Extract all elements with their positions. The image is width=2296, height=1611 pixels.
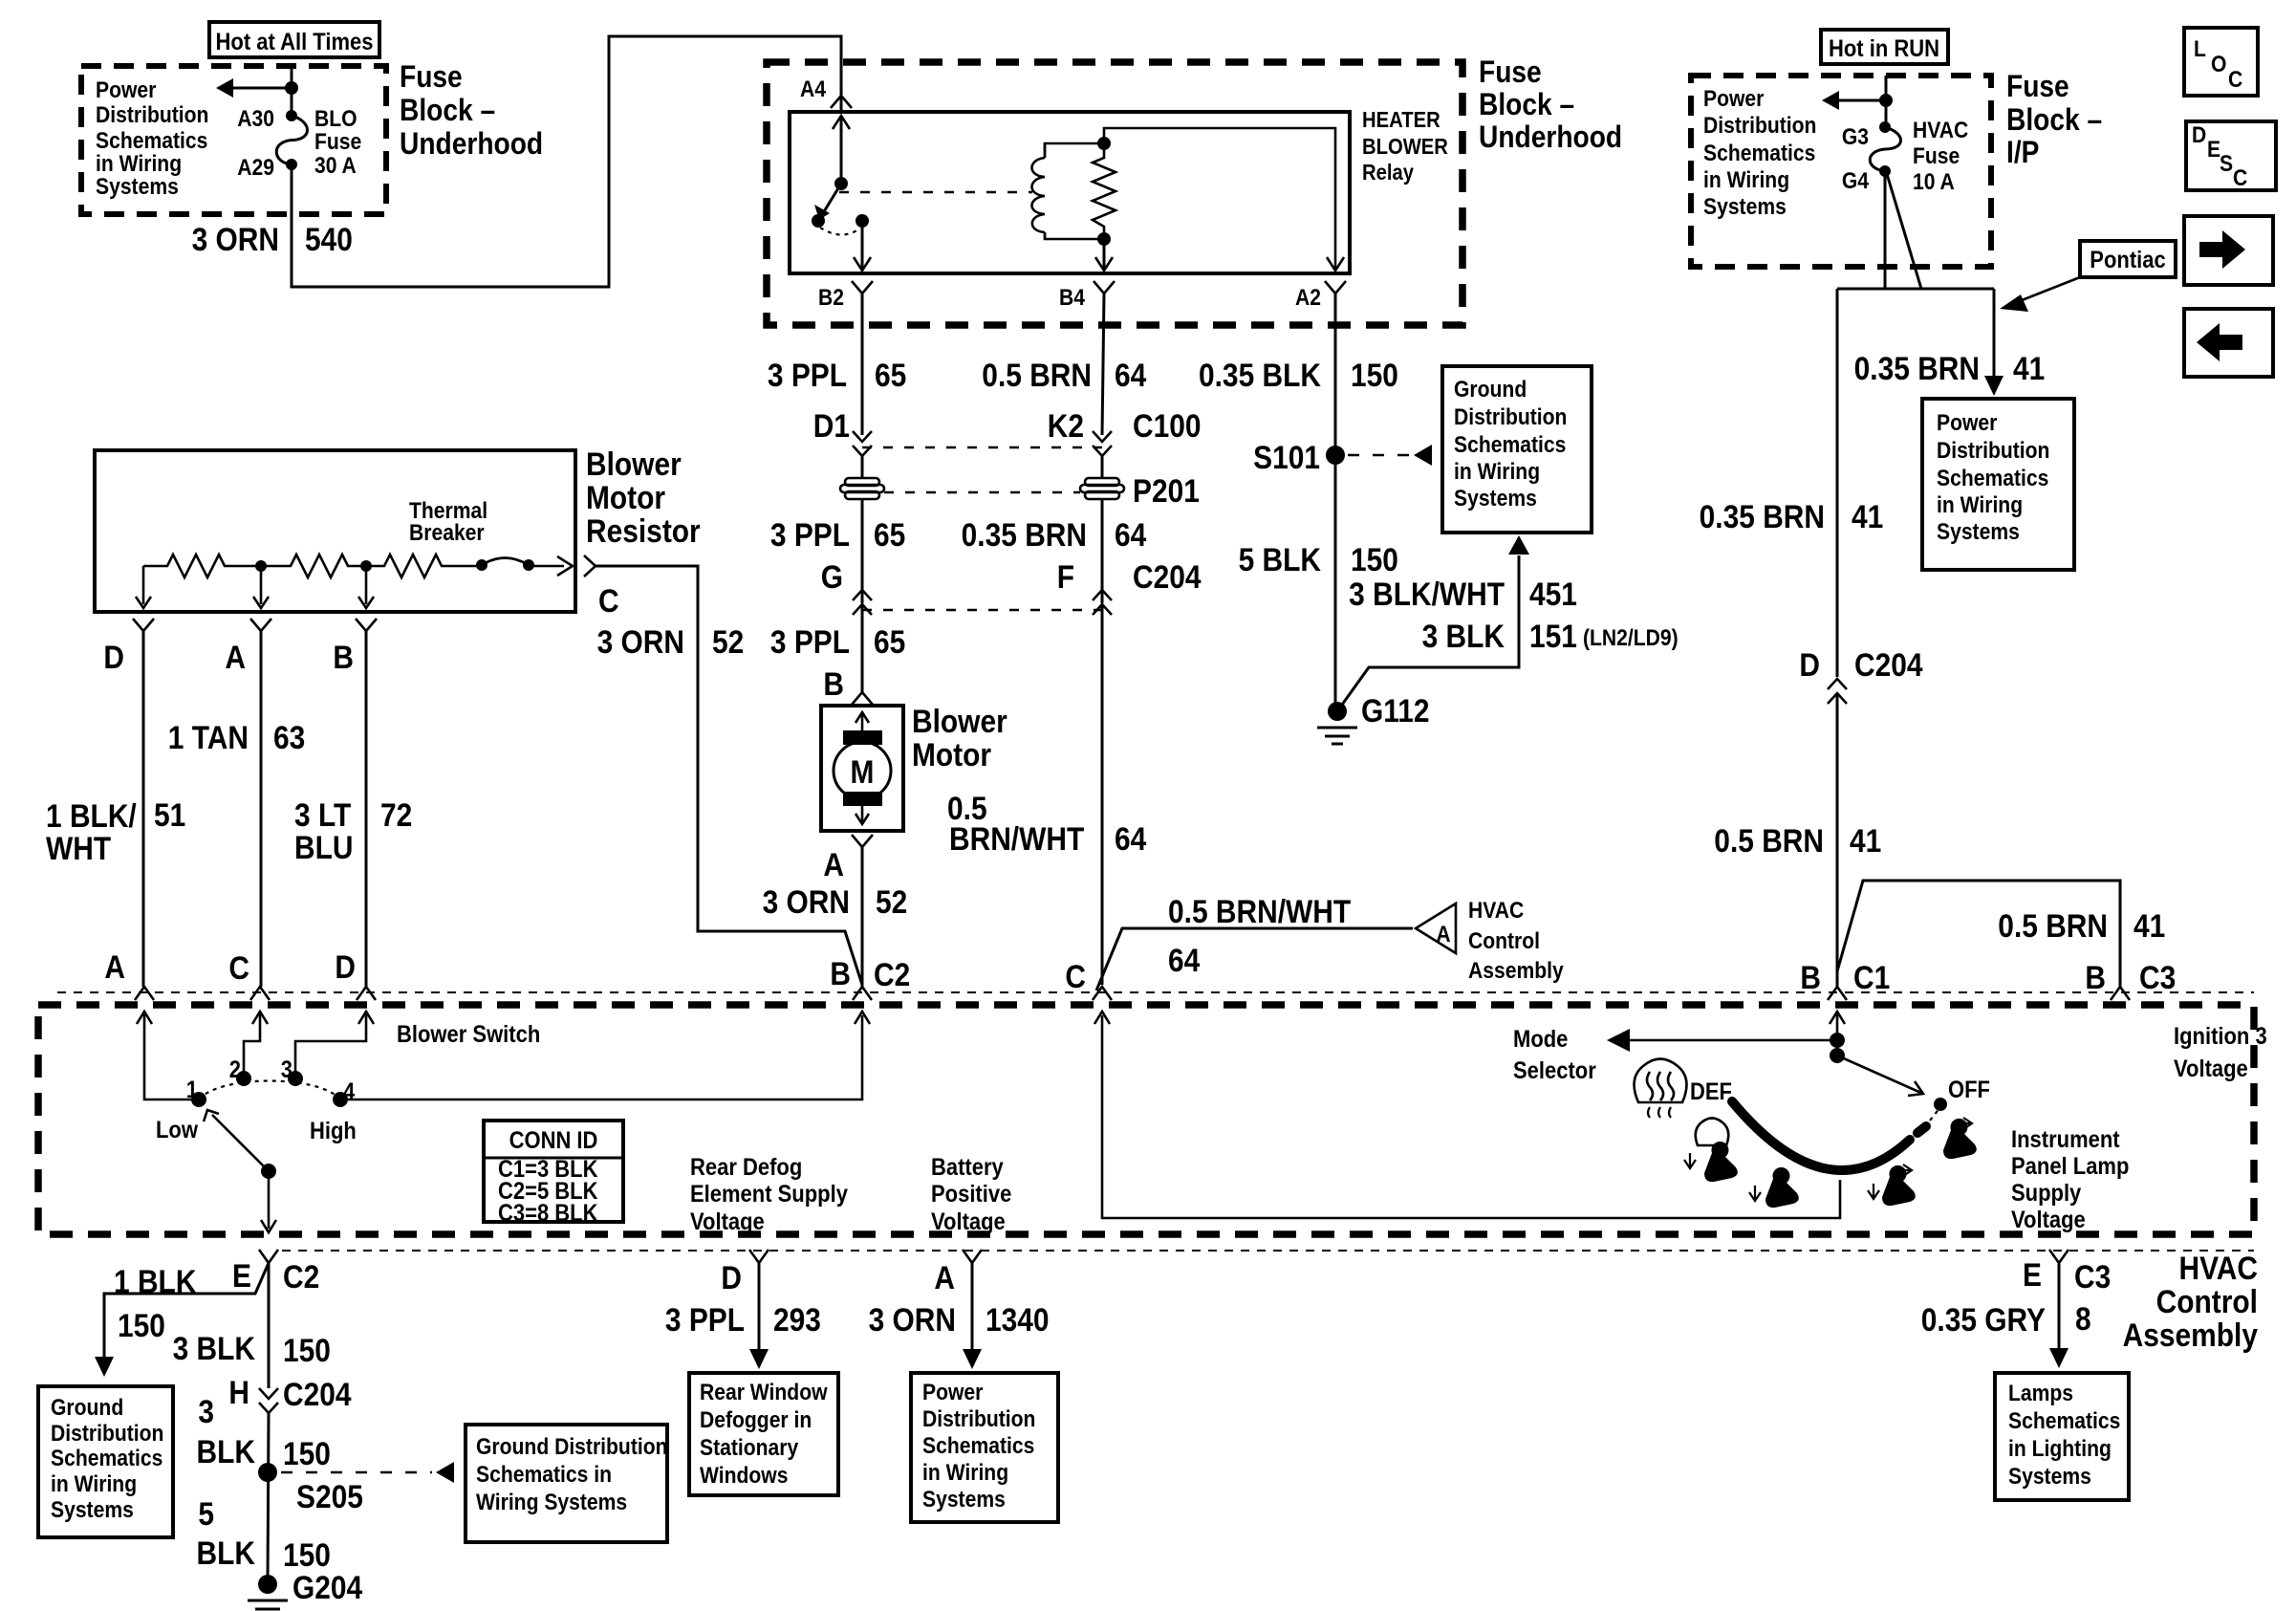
svg-text:Supply: Supply <box>2011 1180 2081 1207</box>
pin A chevron (motor) <box>852 835 873 847</box>
thermal breaker arc <box>482 558 529 566</box>
switch contacts dotted arc <box>199 1081 340 1100</box>
connector P201 on wire 2 <box>1080 478 1124 499</box>
svg-text:B2: B2 <box>818 285 844 311</box>
svg-text:B: B <box>333 639 354 675</box>
svg-text:64: 64 <box>1115 820 1146 857</box>
relay switch contact right <box>856 214 869 228</box>
svg-text:Selector: Selector <box>1513 1057 1596 1084</box>
pin C chevron (resistor) <box>584 555 596 577</box>
relay switch blade <box>823 184 841 213</box>
connector C204 chevrons wire1 <box>853 590 872 600</box>
wire 3 BLK 150 (E to C204) <box>268 1263 271 1388</box>
svg-text:in Wiring: in Wiring <box>1937 492 2023 518</box>
svg-text:B: B <box>2085 959 2106 995</box>
svg-text:Mode: Mode <box>1513 1026 1568 1053</box>
wire segment B4 C100-P201 <box>1101 456 1104 478</box>
switch pin D arrow <box>358 1012 374 1024</box>
node junction on IP fuse feed <box>1879 94 1893 107</box>
svg-text:WHT: WHT <box>46 830 112 866</box>
svg-text:B: B <box>1800 959 1821 995</box>
fuse HVAC 10A element <box>1870 127 1900 171</box>
pin C chevron (switch) <box>250 987 270 1000</box>
connector C204 chevrons (bottom) <box>259 1388 278 1399</box>
mode icon bi-level <box>1882 1165 1916 1206</box>
svg-text:BLK: BLK <box>197 1433 255 1469</box>
svg-text:Systems: Systems <box>922 1487 1006 1513</box>
svg-text:E: E <box>2207 137 2220 163</box>
wire segment B2 C100-P201 <box>861 456 864 478</box>
svg-text:A29: A29 <box>237 155 274 181</box>
svg-text:B: B <box>830 955 851 991</box>
fuse block underhood dashed box <box>81 66 386 214</box>
pin B C3 chevron <box>2111 987 2130 1000</box>
svg-text:C100: C100 <box>1133 407 1202 444</box>
pin A chevron (bottom) <box>963 1250 982 1263</box>
svg-text:65: 65 <box>874 516 905 553</box>
svg-text:3 ORN: 3 ORN <box>597 623 684 660</box>
svg-text:P201: P201 <box>1133 472 1200 509</box>
connector C204 dashed line <box>862 609 1102 611</box>
relay coil top rail <box>1045 143 1104 158</box>
svg-text:K2: K2 <box>1048 407 1084 444</box>
svg-text:D: D <box>335 948 356 985</box>
svg-text:D: D <box>721 1259 742 1295</box>
svg-text:in Wiring: in Wiring <box>922 1460 1008 1486</box>
svg-text:(LN2/LD9): (LN2/LD9) <box>1583 625 1679 651</box>
DESC box <box>2186 121 2276 190</box>
svg-text:in Wiring: in Wiring <box>1703 167 1789 193</box>
svg-text:Wiring Systems: Wiring Systems <box>476 1490 627 1515</box>
svg-text:Schematics: Schematics <box>922 1433 1034 1459</box>
svg-text:Systems: Systems <box>1937 519 2020 545</box>
svg-text:Motor: Motor <box>586 479 665 515</box>
svg-text:72: 72 <box>380 796 412 833</box>
svg-text:Ignition 3: Ignition 3 <box>2174 1023 2267 1050</box>
svg-text:BRN/WHT: BRN/WHT <box>949 820 1085 857</box>
svg-text:Resistor: Resistor <box>586 512 701 549</box>
relay resistor <box>1093 143 1116 239</box>
svg-text:A: A <box>1436 922 1450 947</box>
svg-text:M: M <box>851 753 875 790</box>
svg-text:C204: C204 <box>1133 558 1202 595</box>
svg-text:64: 64 <box>1115 516 1146 553</box>
svg-text:Blower: Blower <box>912 703 1007 739</box>
resistor junction A leg <box>260 566 263 604</box>
ground G204 <box>258 1575 277 1594</box>
svg-text:C3: C3 <box>2139 959 2176 995</box>
mode selector OFF contact <box>1934 1098 1947 1111</box>
svg-text:150: 150 <box>118 1307 165 1343</box>
svg-text:in Wiring: in Wiring <box>1454 459 1540 485</box>
relay switch pivot <box>834 177 848 190</box>
svg-text:Windows: Windows <box>700 1463 788 1489</box>
svg-text:C204: C204 <box>283 1376 352 1412</box>
wire from fuse G4 split <box>1884 171 1887 289</box>
relay B4 output wire <box>1103 239 1106 270</box>
svg-text:C: C <box>598 582 619 619</box>
svg-text:Distribution: Distribution <box>922 1406 1035 1432</box>
fuse block IP dashed box <box>1691 76 1991 267</box>
svg-text:High: High <box>310 1118 357 1144</box>
blower motor brush bottom <box>843 792 882 806</box>
node resistor junction B <box>360 560 372 572</box>
svg-text:BLK: BLK <box>197 1535 255 1571</box>
wire 1 BLK 150 branch <box>104 1263 269 1358</box>
svg-text:Block –: Block – <box>2006 103 2102 137</box>
svg-text:Schematics: Schematics <box>51 1446 162 1471</box>
pin B C1 chevron <box>1828 987 1847 1000</box>
mode icon defrost-floor <box>1696 1119 1729 1146</box>
svg-text:3 BLK: 3 BLK <box>173 1330 255 1366</box>
ground G112 <box>1328 702 1347 721</box>
svg-text:BLOWER: BLOWER <box>1362 134 1448 160</box>
wire 3 BLK/WHT 451 from ground box <box>1508 535 1529 555</box>
svg-text:3 LT: 3 LT <box>294 796 352 833</box>
fuse BLO 30A element <box>276 116 307 164</box>
switch rotor output wire <box>268 1171 271 1229</box>
svg-text:in Wiring: in Wiring <box>96 151 182 177</box>
pin B2 chevron <box>852 281 873 294</box>
svg-text:DEF: DEF <box>1690 1078 1732 1105</box>
svg-text:64: 64 <box>1115 357 1146 393</box>
fuse HVAC 10A terminal G4 <box>1879 165 1891 177</box>
relay internal wire to A2 <box>1104 128 1335 270</box>
svg-text:D: D <box>103 639 124 675</box>
switch contact 4 <box>333 1092 348 1107</box>
switch contact 3 <box>288 1071 303 1086</box>
svg-text:Hot at All Times: Hot at All Times <box>216 29 374 55</box>
svg-text:0.5 BRN: 0.5 BRN <box>1714 822 1824 859</box>
mode icon floor <box>1765 1167 1799 1208</box>
svg-text:A: A <box>934 1259 955 1295</box>
svg-text:Distribution: Distribution <box>51 1421 163 1447</box>
pin B C2 chevron (switch) <box>853 987 872 1000</box>
pin E C3 chevron <box>2049 1250 2069 1263</box>
svg-text:3: 3 <box>198 1393 214 1429</box>
power distribution box (right) <box>1922 399 2074 570</box>
svg-text:Schematics in: Schematics in <box>476 1462 612 1488</box>
svg-text:B: B <box>823 665 844 702</box>
svg-text:1 TAN: 1 TAN <box>168 719 249 755</box>
svg-text:5: 5 <box>198 1495 214 1532</box>
switch rotor pivot <box>261 1164 276 1179</box>
connector C204 chevrons wire2 <box>1093 590 1112 600</box>
svg-text:3 BLK/WHT: 3 BLK/WHT <box>1349 576 1505 612</box>
svg-text:Power: Power <box>1703 86 1765 112</box>
mode selector arc <box>1732 1101 1910 1170</box>
svg-text:52: 52 <box>876 883 907 920</box>
svg-text:Motor: Motor <box>912 736 991 773</box>
svg-text:F: F <box>1057 558 1074 595</box>
wire 1 BLK/WHT 51 <box>142 631 145 987</box>
back arrow box <box>2184 309 2273 377</box>
switch pin A arrow <box>137 1012 152 1024</box>
wire 3 ORN 52 from resistor C <box>596 566 862 985</box>
svg-text:41: 41 <box>2134 907 2165 944</box>
svg-text:in Wiring: in Wiring <box>51 1471 137 1497</box>
svg-text:S205: S205 <box>296 1478 363 1514</box>
svg-text:Fuse: Fuse <box>2006 70 2069 103</box>
svg-text:30 A: 30 A <box>314 153 357 179</box>
svg-text:C: C <box>2233 165 2247 191</box>
HVAC control assembly triangle connector A <box>1416 903 1456 953</box>
svg-text:E: E <box>232 1257 251 1294</box>
svg-text:Block –: Block – <box>1479 88 1574 121</box>
node Hot in RUN label box <box>1821 30 1948 64</box>
pin E C2 chevron <box>259 1250 278 1263</box>
blower motor brush top <box>843 730 882 745</box>
svg-text:Distribution: Distribution <box>1703 113 1816 139</box>
svg-text:C: C <box>228 949 249 986</box>
svg-text:3 PPL: 3 PPL <box>665 1301 745 1338</box>
switch pin C arrow <box>252 1012 268 1024</box>
svg-text:Control: Control <box>1468 928 1540 954</box>
svg-text:41: 41 <box>1850 822 1881 859</box>
svg-text:8: 8 <box>2075 1300 2091 1337</box>
relay actuation dashed line <box>839 191 1032 193</box>
svg-text:Blower: Blower <box>586 446 682 482</box>
thermal breaker output arrow <box>529 565 564 568</box>
wire 1 TAN 63 <box>260 631 263 987</box>
relay solid box <box>790 112 1350 273</box>
wire 3 PPL 65 (C204 to blower motor B) <box>861 604 864 692</box>
svg-text:150: 150 <box>283 1536 331 1573</box>
forward arrow box <box>2184 216 2273 285</box>
svg-text:41: 41 <box>1852 498 1883 534</box>
splice S101 <box>1326 446 1345 465</box>
svg-text:G: G <box>821 558 843 595</box>
relay switch common wire with up arrow <box>840 116 843 184</box>
relay switch contact left <box>812 214 825 228</box>
svg-text:3 PPL: 3 PPL <box>770 516 850 553</box>
node coil bottom junction <box>1097 232 1111 246</box>
svg-text:Systems: Systems <box>96 174 179 200</box>
svg-text:Schematics: Schematics <box>1937 466 2048 491</box>
svg-text:in Lighting: in Lighting <box>2008 1436 2112 1462</box>
svg-text:0.5 BRN: 0.5 BRN <box>1998 907 2108 944</box>
svg-text:D: D <box>1799 646 1820 683</box>
svg-text:Blower Switch: Blower Switch <box>397 1021 540 1048</box>
svg-text:G4: G4 <box>1842 168 1870 194</box>
svg-text:150: 150 <box>283 1332 331 1368</box>
svg-text:Distribution: Distribution <box>1937 438 2049 464</box>
wire 0.5 BRN 64 (B4 to C100) <box>1102 294 1104 435</box>
wire 3 ORN 540 from fuse A29 to relay A4 <box>292 36 841 287</box>
blower motor resistor box <box>95 450 575 612</box>
fuse BLO 30A terminal A30 <box>286 110 297 121</box>
svg-text:Systems: Systems <box>51 1497 134 1523</box>
svg-text:Rear Window: Rear Window <box>700 1380 828 1405</box>
svg-text:BLO: BLO <box>314 106 357 132</box>
svg-text:10 A: 10 A <box>1913 169 1955 195</box>
svg-text:HVAC: HVAC <box>2178 1250 2258 1286</box>
svg-text:150: 150 <box>283 1435 331 1471</box>
DEF icon <box>1635 1059 1687 1103</box>
wire 0.35 GRY 8 <box>2058 1263 2061 1349</box>
svg-text:0.35 GRY: 0.35 GRY <box>1921 1301 2046 1338</box>
resistor chain left leg <box>142 566 145 604</box>
svg-text:Schematics: Schematics <box>96 128 207 154</box>
pin A chevron (resistor) <box>250 619 271 631</box>
Pontiac reference arrow <box>2012 277 2080 304</box>
svg-text:Power: Power <box>1937 410 1998 436</box>
node coil top junction <box>1097 137 1111 150</box>
pin C chevron (mode) <box>1093 987 1112 1000</box>
svg-text:Pontiac: Pontiac <box>2090 247 2165 273</box>
svg-text:1340: 1340 <box>986 1301 1050 1338</box>
resistor R2 <box>261 555 366 577</box>
pin B chevron (motor) <box>852 692 873 705</box>
blower motor M circle <box>834 742 891 799</box>
svg-text:Distribution: Distribution <box>96 102 208 128</box>
connector C100 dashed line <box>862 446 1102 448</box>
ground distribution box (1 BLK) <box>38 1386 173 1537</box>
pin D chevron (resistor) <box>133 619 154 631</box>
splice S205 <box>258 1463 277 1482</box>
connector C100 chevrons wire1 <box>853 431 872 442</box>
svg-text:Voltage: Voltage <box>690 1208 765 1235</box>
HVAC control assembly thin dashed bottom boundary <box>282 1250 2254 1252</box>
svg-text:65: 65 <box>874 623 905 660</box>
svg-text:Defogger in: Defogger in <box>700 1407 812 1433</box>
svg-text:Voltage: Voltage <box>2174 1056 2248 1082</box>
svg-text:Schematics: Schematics <box>1454 432 1566 458</box>
blower motor M1 box <box>821 706 903 831</box>
mode selector ignition wire arrow <box>1830 1012 1845 1024</box>
svg-text:Power: Power <box>922 1380 984 1405</box>
svg-text:Ground: Ground <box>1454 377 1527 403</box>
wire arrow to power distribution schematics <box>229 87 292 90</box>
HVAC control assembly dashed box <box>38 1005 2254 1234</box>
relay B2 output wire <box>861 221 864 270</box>
switch contact 2 <box>236 1071 251 1086</box>
svg-text:0.5 BRN/WHT: 0.5 BRN/WHT <box>1168 893 1352 929</box>
svg-text:Battery: Battery <box>931 1154 1004 1181</box>
svg-text:Instrument: Instrument <box>2011 1126 2120 1153</box>
svg-text:0.35 BRN: 0.35 BRN <box>962 516 1087 553</box>
svg-text:A: A <box>104 948 125 985</box>
svg-text:Ground: Ground <box>51 1395 123 1421</box>
svg-text:HVAC: HVAC <box>1468 898 1524 924</box>
svg-text:52: 52 <box>712 623 744 660</box>
svg-text:OFF: OFF <box>1948 1077 1990 1103</box>
wire 0.35 BRN 64 (P201 to C204) <box>1101 499 1104 603</box>
node resistor junction A <box>255 560 267 572</box>
svg-text:S101: S101 <box>1253 439 1320 475</box>
pin D chevron (bottom) <box>749 1250 769 1263</box>
svg-text:C2: C2 <box>283 1258 319 1295</box>
connector P201 on wire 1 <box>840 478 884 499</box>
wire arrow to power distribution (IP) <box>1835 99 1886 102</box>
mode selector arrow to selector <box>1625 1039 1837 1042</box>
relay switch dashed travel arc <box>820 228 858 235</box>
node junction on fuse feed <box>285 81 298 95</box>
resistor R3 <box>366 555 482 577</box>
switch contact 1 <box>191 1092 206 1107</box>
relay coil bottom rail <box>1045 232 1104 239</box>
svg-text:3 ORN: 3 ORN <box>869 1301 956 1338</box>
svg-text:65: 65 <box>875 357 906 393</box>
svg-text:A: A <box>823 846 844 882</box>
svg-text:Breaker: Breaker <box>409 520 485 546</box>
svg-text:Relay: Relay <box>1362 160 1414 185</box>
wire 0.5 BRN/WHT 64 to HVAC control <box>1096 928 1413 991</box>
svg-text:O: O <box>2211 52 2226 77</box>
svg-text:Systems: Systems <box>1454 486 1537 512</box>
svg-text:150: 150 <box>1351 541 1398 577</box>
thermal breaker contact left <box>476 559 487 571</box>
svg-text:Assembly: Assembly <box>2123 1317 2259 1353</box>
power distribution box (bottom) <box>911 1373 1058 1522</box>
svg-text:0.35 BRN: 0.35 BRN <box>1700 498 1825 534</box>
svg-text:Hot in RUN: Hot in RUN <box>1829 35 1939 62</box>
pin A chevron (switch) <box>135 987 154 1000</box>
svg-text:293: 293 <box>773 1301 821 1338</box>
svg-text:A: A <box>225 639 246 675</box>
rear window defogger box <box>689 1373 838 1495</box>
mode selector lamp wire <box>1102 1015 1840 1218</box>
svg-text:Schematics: Schematics <box>1703 141 1815 166</box>
svg-text:A2: A2 <box>1295 285 1321 311</box>
wire 3 ORN 52 (motor A to switch B C2) <box>861 847 864 987</box>
svg-text:D1: D1 <box>813 407 850 444</box>
svg-text:1 BLK: 1 BLK <box>114 1263 196 1299</box>
svg-text:Systems: Systems <box>1703 194 1787 220</box>
pin A2 chevron <box>1325 281 1346 294</box>
connector C204 chevrons (right) <box>1828 679 1847 689</box>
svg-text:5 BLK: 5 BLK <box>1239 541 1321 577</box>
fuse block underhood dashed box (relay) <box>767 62 1462 325</box>
svg-text:Underhood: Underhood <box>400 127 543 161</box>
mode selector wiper to OFF <box>1837 1056 1923 1094</box>
svg-text:C1: C1 <box>1853 959 1890 995</box>
svg-text:3 ORN: 3 ORN <box>192 221 279 257</box>
wire feed from Hot in RUN <box>1885 76 1888 127</box>
ground distribution box (S101) <box>1442 366 1592 533</box>
svg-text:D: D <box>2192 122 2206 148</box>
svg-text:Fuse: Fuse <box>1913 143 1960 169</box>
svg-text:C3: C3 <box>2074 1258 2111 1295</box>
svg-text:C204: C204 <box>1854 646 1923 683</box>
svg-text:CONN ID: CONN ID <box>509 1127 598 1154</box>
svg-text:S: S <box>2220 151 2233 177</box>
node mode selector junction 1 <box>1830 1033 1845 1048</box>
wire feed from Hot at All Times into fuse <box>291 66 293 116</box>
svg-text:B4: B4 <box>1059 285 1085 311</box>
svg-text:Rear Defog: Rear Defog <box>690 1154 802 1181</box>
svg-text:3 ORN: 3 ORN <box>763 883 850 920</box>
switch high wire to B C2 <box>340 1015 862 1099</box>
svg-text:A30: A30 <box>237 106 274 132</box>
svg-text:2: 2 <box>229 1056 241 1083</box>
svg-text:Fuse: Fuse <box>400 60 463 94</box>
thermal breaker contact right <box>523 559 534 571</box>
resistor junction B leg <box>365 566 368 604</box>
pin A4 chevron <box>831 96 852 108</box>
svg-text:51: 51 <box>154 796 185 833</box>
svg-text:Assembly: Assembly <box>1468 958 1564 984</box>
wire 3 ORN 1340 <box>971 1263 974 1350</box>
svg-text:Fuse: Fuse <box>314 129 361 155</box>
connector P201 dashed link <box>884 491 1080 493</box>
svg-text:1 BLK/: 1 BLK/ <box>46 797 137 834</box>
svg-text:Fuse: Fuse <box>1479 55 1542 89</box>
svg-text:3 PPL: 3 PPL <box>768 357 847 393</box>
svg-text:Panel Lamp: Panel Lamp <box>2011 1153 2129 1180</box>
wire 0.5 BRN 41 branch to C3 <box>1837 881 2120 987</box>
svg-text:G204: G204 <box>292 1569 362 1605</box>
